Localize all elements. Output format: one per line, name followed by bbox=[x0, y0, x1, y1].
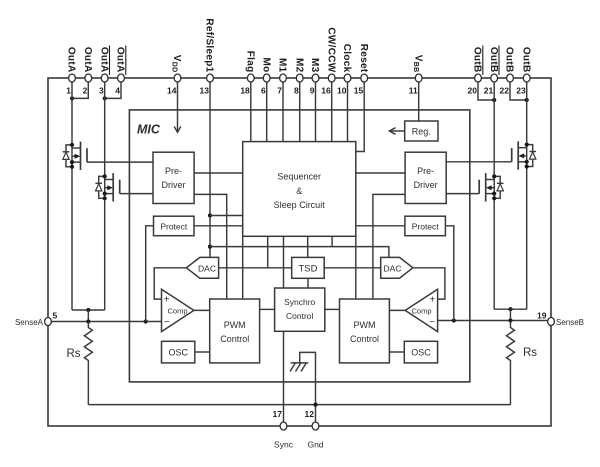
svg-text:DAC: DAC bbox=[198, 263, 216, 273]
pin 15 Reset bbox=[354, 44, 369, 96]
pin 19 SenseB bbox=[537, 311, 584, 328]
svg-text:20: 20 bbox=[468, 86, 478, 96]
oscillator OSC B bbox=[404, 341, 437, 363]
pin 20 OutB-bar bbox=[468, 46, 483, 96]
TSD box bbox=[292, 257, 325, 278]
svg-text:OutA: OutA bbox=[98, 47, 109, 73]
svg-text:PWM: PWM bbox=[224, 320, 246, 330]
pin 12 Gnd bbox=[305, 409, 324, 450]
svg-text:PWM: PWM bbox=[354, 320, 376, 330]
node protect B junction bbox=[452, 318, 456, 322]
wire DAC A to comp A plus bbox=[154, 268, 186, 299]
svg-text:3: 3 bbox=[99, 86, 104, 96]
svg-text:M1: M1 bbox=[277, 58, 288, 73]
wire dac rail right bbox=[324, 267, 381, 269]
node gnd return junction bbox=[313, 403, 317, 407]
wire pwm A to synchro bbox=[260, 308, 275, 310]
svg-text:14: 14 bbox=[167, 86, 177, 96]
svg-text:Control: Control bbox=[220, 334, 249, 344]
svg-text:SenseA: SenseA bbox=[15, 318, 44, 327]
MIC die box bbox=[129, 110, 469, 382]
svg-text:17: 17 bbox=[273, 409, 283, 419]
svg-text:&: & bbox=[296, 186, 302, 196]
svg-text:9: 9 bbox=[310, 86, 315, 96]
svg-text:Protect: Protect bbox=[412, 221, 440, 231]
pin 22 OutB bbox=[500, 47, 515, 96]
svg-text:+: + bbox=[164, 295, 170, 306]
svg-text:22: 22 bbox=[500, 86, 510, 96]
wire source connector OutA bbox=[72, 309, 105, 311]
wire pin20 jog to pin21 line bbox=[478, 82, 494, 100]
wire comp B out to pwm B bbox=[389, 309, 405, 311]
svg-text:DAC: DAC bbox=[384, 263, 402, 273]
svg-text:TSD: TSD bbox=[299, 263, 318, 274]
node ref to sequencer bbox=[208, 213, 212, 217]
node junction pin1/pin2 bbox=[70, 96, 74, 100]
wire sequencer to synchro bbox=[283, 236, 285, 288]
wire sequencer to dac rail riser bbox=[267, 236, 269, 267]
pin 9 M3 bbox=[309, 58, 320, 96]
wire gate Q2 to pre-driver A bbox=[120, 193, 153, 195]
wire Gnd pin riser bbox=[300, 352, 316, 422]
svg-text:16: 16 bbox=[321, 86, 331, 96]
svg-text:8: 8 bbox=[294, 86, 299, 96]
svg-text:Reg.: Reg. bbox=[412, 126, 431, 136]
op-amp comp B bbox=[405, 289, 437, 331]
svg-text:M3: M3 bbox=[309, 58, 320, 73]
wire reg output arrow bbox=[389, 128, 404, 135]
wire osc A to pwm A bbox=[195, 351, 210, 353]
ground bbox=[290, 363, 308, 372]
svg-text:Driver: Driver bbox=[162, 180, 186, 190]
svg-text:Flag: Flag bbox=[244, 51, 255, 73]
pwm control A bbox=[210, 299, 260, 363]
wire pin4 jog to pin3 line bbox=[105, 82, 121, 98]
wire synchro to pwm B bbox=[325, 308, 340, 310]
transistor Q3 (OutB high) bbox=[512, 141, 536, 169]
svg-text:OutB: OutB bbox=[520, 47, 531, 73]
wire ref rail to DAC B bbox=[210, 247, 389, 258]
svg-text:10: 10 bbox=[337, 86, 347, 96]
svg-text:7: 7 bbox=[277, 86, 282, 96]
node junction pin20/pin21 bbox=[492, 98, 496, 102]
wire M3 to sequencer bbox=[315, 82, 317, 142]
pin 1 OutA bbox=[66, 47, 77, 96]
svg-text:+: + bbox=[429, 295, 435, 306]
svg-text:21: 21 bbox=[484, 86, 494, 96]
svg-text:Gnd: Gnd bbox=[307, 440, 323, 450]
protect A bbox=[154, 216, 195, 236]
svg-text:Rs: Rs bbox=[66, 348, 80, 360]
resistor Rs (B) bbox=[506, 321, 537, 405]
wire Reset to sequencer bbox=[356, 82, 364, 152]
wire sequencer corner drop to pwm B bbox=[355, 236, 357, 299]
svg-text:MIC: MIC bbox=[137, 123, 161, 137]
wire pin3 drain line bbox=[104, 82, 106, 310]
wire pin21 drain line bbox=[493, 82, 495, 309]
svg-text:5: 5 bbox=[53, 311, 58, 321]
wire CW/CCW to sequencer bbox=[331, 82, 333, 142]
svg-text:12: 12 bbox=[305, 409, 315, 419]
svg-text:OutB: OutB bbox=[488, 47, 499, 73]
wire Vbb to regulator bbox=[418, 82, 420, 121]
regulator U2 Reg. bbox=[405, 121, 438, 141]
wire ref branch to sequencer bbox=[210, 215, 243, 217]
pin 18 Flag bbox=[240, 51, 255, 96]
svg-text:1: 1 bbox=[66, 86, 71, 96]
svg-text:Comp: Comp bbox=[167, 306, 187, 315]
node Rs A top bbox=[86, 319, 90, 323]
svg-text:Sequencer: Sequencer bbox=[277, 172, 321, 182]
wire ground return bbox=[88, 404, 510, 406]
svg-text:Reset: Reset bbox=[358, 44, 369, 73]
wire SenseB line bbox=[438, 320, 551, 322]
node Rs B top bbox=[508, 318, 512, 322]
wire Vdd supply with arrow bbox=[174, 82, 181, 132]
wire sequencer to TSD bbox=[307, 236, 309, 257]
protect B bbox=[405, 216, 446, 236]
wire drop to SenseB line bbox=[509, 309, 511, 320]
svg-text:Rs: Rs bbox=[523, 347, 537, 359]
wire pre-driver A to pwm A bbox=[194, 194, 227, 299]
wire SenseA line bbox=[48, 321, 162, 323]
wire Ref/Sleep1 feed bbox=[209, 82, 211, 257]
node ref to dac rail bbox=[208, 245, 212, 249]
svg-text:Comp: Comp bbox=[411, 306, 431, 315]
pin 10 Clock bbox=[337, 44, 352, 96]
wire sequencer to ref rail bbox=[331, 236, 333, 246]
oscillator OSC A bbox=[162, 341, 195, 363]
svg-text:OutA: OutA bbox=[82, 47, 93, 73]
pin 11 VBB bbox=[409, 55, 424, 96]
pin 5 SenseA bbox=[15, 311, 58, 328]
pin 17 Sync bbox=[273, 409, 294, 450]
transistor Q1 (OutA high) bbox=[63, 142, 87, 170]
pin 13 Ref/Sleep1 bbox=[200, 18, 215, 95]
pin 4 OutA-bar bbox=[115, 46, 126, 96]
wire source connector OutB bbox=[494, 308, 527, 310]
node source mid B bbox=[508, 307, 512, 311]
wire osc B to pwm B bbox=[389, 351, 404, 353]
node junction pin3/pin4 bbox=[103, 96, 107, 100]
svg-text:OutB: OutB bbox=[472, 47, 483, 73]
pin 7 M1 bbox=[277, 58, 288, 96]
wire protect A to sense line bbox=[146, 226, 154, 322]
svg-text:18: 18 bbox=[240, 86, 250, 96]
svg-text:6: 6 bbox=[261, 86, 266, 96]
wire Clock to sequencer bbox=[347, 82, 349, 142]
wire drop to SenseA line bbox=[87, 310, 89, 322]
svg-text:Driver: Driver bbox=[414, 180, 438, 190]
wire gate Q3 to pre-driver B bbox=[446, 161, 512, 163]
svg-text:−: − bbox=[429, 317, 435, 328]
wire gate Q4 to pre-driver B bbox=[446, 193, 479, 195]
wire DAC B to comp B plus bbox=[413, 268, 445, 299]
wire pin23 drain line bbox=[526, 82, 528, 309]
pin 21 OutB-bar bbox=[484, 46, 499, 96]
wire protect B to sequencer bbox=[356, 225, 405, 227]
pin 8 M2 bbox=[293, 58, 304, 96]
svg-text:−: − bbox=[164, 317, 170, 328]
svg-text:OSC: OSC bbox=[168, 348, 188, 358]
wire sequencer to pre-driver B top bbox=[356, 172, 405, 174]
svg-text:13: 13 bbox=[200, 86, 210, 96]
svg-text:Sleep Circuit: Sleep Circuit bbox=[274, 200, 326, 210]
wire pre-driver B to pwm B bbox=[373, 194, 405, 299]
svg-text:2: 2 bbox=[83, 86, 88, 96]
pin 23 OutB bbox=[516, 47, 531, 96]
svg-text:Pre-: Pre- bbox=[165, 166, 182, 176]
package border (pin frame) bbox=[48, 78, 551, 426]
pre-driver B bbox=[405, 152, 446, 203]
svg-text:OutB: OutB bbox=[504, 47, 515, 73]
pre-driver A bbox=[153, 152, 194, 203]
synchro control bbox=[275, 288, 325, 331]
wire synchro to Sync pin bbox=[283, 331, 285, 422]
svg-text:Clock: Clock bbox=[341, 44, 352, 73]
sequencer U1 bbox=[243, 142, 356, 237]
wire comp A out to pwm A bbox=[194, 309, 210, 311]
pin 14 VDD bbox=[167, 55, 182, 96]
wire pin1 drain line bbox=[71, 82, 73, 310]
svg-text:SenseB: SenseB bbox=[556, 318, 584, 327]
wire TSD to synchro bbox=[307, 278, 309, 288]
wire sequencer corner drop to pwm A bbox=[242, 236, 244, 299]
wire M1 to sequencer bbox=[282, 82, 284, 142]
svg-text:OSC: OSC bbox=[411, 348, 431, 358]
svg-text:Synchro: Synchro bbox=[284, 297, 315, 307]
pin 2 OutA bbox=[82, 47, 93, 96]
svg-text:11: 11 bbox=[409, 86, 418, 96]
svg-text:CW/CCW: CW/CCW bbox=[325, 27, 336, 72]
svg-text:M2: M2 bbox=[293, 58, 304, 73]
svg-text:Control: Control bbox=[286, 311, 314, 321]
svg-text:15: 15 bbox=[354, 86, 364, 96]
svg-text:23: 23 bbox=[516, 86, 526, 96]
pin 16 CW/CCW bbox=[321, 27, 336, 95]
pin 3 OutA-bar bbox=[98, 46, 109, 96]
wire Flag to sequencer bbox=[250, 82, 252, 142]
transistor Q4 (OutB low) bbox=[479, 173, 503, 201]
resistor Rs (A) bbox=[66, 322, 92, 405]
wire sequencer to pre-driver A top bbox=[194, 172, 243, 174]
svg-text:Sync: Sync bbox=[274, 440, 294, 450]
svg-text:OutA: OutA bbox=[66, 47, 77, 73]
wire gate Q1 to pre-driver A bbox=[87, 161, 153, 163]
DAC A bbox=[186, 257, 218, 278]
svg-text:OutA: OutA bbox=[115, 47, 126, 73]
node protect A junction bbox=[144, 319, 148, 323]
svg-text:Protect: Protect bbox=[160, 221, 188, 231]
wire protect A to sequencer bbox=[194, 225, 243, 227]
pin 6 Mo bbox=[260, 57, 271, 95]
wire M2 to sequencer bbox=[299, 82, 301, 142]
wire dac rail left bbox=[219, 267, 292, 269]
transistor Q2 (OutA low) bbox=[95, 173, 119, 201]
wire pin2 jog to pin1 line bbox=[72, 82, 88, 98]
op-amp comp A bbox=[162, 289, 194, 331]
wire protect B to sense line bbox=[445, 226, 453, 321]
node junction pin22/pin23 bbox=[525, 98, 529, 102]
wire Mo to sequencer bbox=[266, 82, 268, 142]
pwm control B bbox=[340, 299, 390, 363]
node source mid A bbox=[86, 308, 90, 312]
svg-text:19: 19 bbox=[537, 311, 547, 321]
svg-text:Pre-: Pre- bbox=[417, 166, 434, 176]
svg-text:Control: Control bbox=[350, 334, 379, 344]
svg-text:Ref/Sleep1: Ref/Sleep1 bbox=[204, 18, 215, 72]
svg-text:Mo: Mo bbox=[260, 57, 271, 72]
svg-text:4: 4 bbox=[115, 86, 120, 96]
wire pin22 jog to pin23 line bbox=[510, 82, 527, 100]
DAC B bbox=[381, 257, 413, 278]
